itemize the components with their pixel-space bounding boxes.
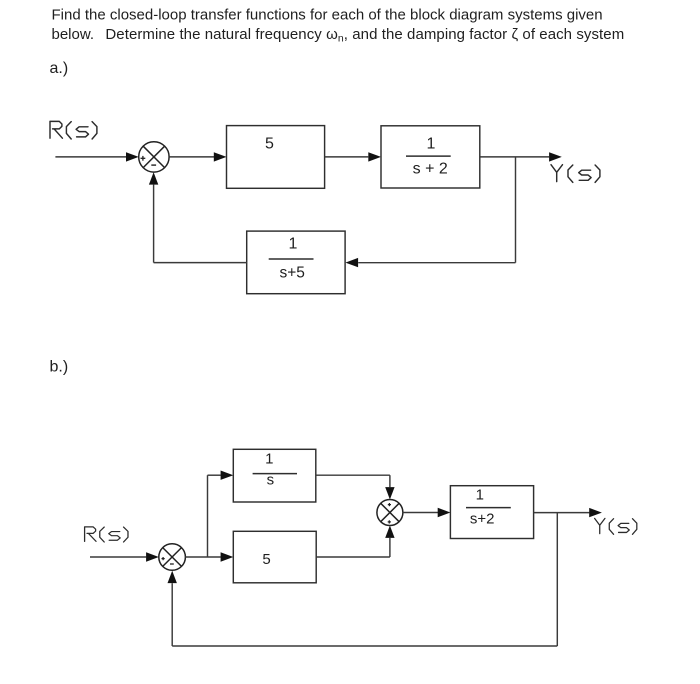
wire: S1 to block G1: [169, 156, 214, 158]
wire: B2 output to corner: [316, 556, 390, 558]
block G1 gain 5: [227, 126, 325, 189]
wire: input R(s) to summer S1: [55, 156, 126, 158]
wire: feedback takeoff vertical (diagram a): [515, 157, 517, 263]
wire: B1 output to corner: [316, 474, 390, 476]
wire: G2 to output Y(s): [480, 156, 549, 158]
svg-text:Determine the natural frequenc: Determine the natural frequency ωn, and …: [105, 26, 624, 45]
svg-text:1: 1: [426, 136, 435, 153]
S2 minus sign: [170, 563, 174, 565]
arrowhead into S2 (from below): [168, 571, 177, 583]
arrowhead into summer S1 (from left): [126, 152, 139, 161]
wire: G1 to block G2: [325, 156, 369, 158]
svg-text:b.): b.): [50, 359, 69, 376]
arrowhead at output Y(s) (diagram b): [589, 508, 602, 517]
arrowhead into block G2: [368, 152, 381, 161]
svg-text:below.: below.: [52, 26, 95, 43]
svg-text:1: 1: [476, 487, 484, 504]
fraction bar (block G2): [406, 155, 451, 157]
block B3 transfer 1/(s+2): [450, 486, 533, 539]
S1 plus sign: [141, 156, 146, 161]
svg-text:s + 2: s + 2: [413, 161, 448, 178]
S1 minus sign: [151, 164, 156, 166]
S3 plus sign (bottom): [388, 520, 391, 523]
wire: short horizontal into 1/s: [208, 474, 221, 476]
node R(s) label (diagram b): [85, 527, 128, 542]
block B2 gain 5: [233, 531, 316, 583]
S2 plus sign: [162, 557, 165, 560]
fraction bar (block B1): [253, 473, 297, 475]
wire: S2 to junction and block 5: [185, 556, 220, 558]
block B1 integrator 1/s: [233, 449, 315, 502]
wire: H1 output to left: [154, 262, 247, 264]
fraction bar (block B3): [466, 507, 511, 509]
svg-text:s+2: s+2: [470, 511, 495, 528]
summing junction S1: [139, 142, 169, 172]
svg-text:1: 1: [265, 451, 273, 468]
wire: corner up to S3 bottom: [389, 538, 391, 557]
arrowhead into block G1: [214, 152, 227, 161]
arrowhead into block H1 (pointing left): [345, 258, 358, 267]
arrowhead into S1 (from below): [149, 172, 158, 184]
wire: input R(s) to summer S2: [90, 556, 146, 558]
block G2 transfer 1/(s+2): [381, 126, 480, 188]
summing junction S3: [377, 500, 403, 526]
svg-text:s+5: s+5: [279, 264, 304, 281]
fraction bar (block H1): [269, 258, 314, 260]
svg-text:Find the closed-loop transfer: Find the closed-loop transfer functions …: [52, 7, 603, 24]
node Y(s) label (diagram b): [595, 518, 637, 534]
arrowhead into block B2 (5): [221, 552, 234, 561]
wire: S3 to block B3: [403, 512, 438, 514]
S3 plus sign (top): [388, 503, 391, 506]
node R(s) label (diagram a): [50, 121, 97, 139]
svg-text:5: 5: [265, 135, 274, 152]
wire: feedback top horizontal into H1: [358, 262, 515, 264]
arrowhead into S3 (from top): [385, 487, 394, 499]
wire: B3 to output Y(s) (diagram b): [534, 512, 590, 514]
arrowhead into block B3: [438, 508, 451, 517]
arrowhead into summer S2 (from left): [146, 552, 159, 561]
svg-text:1: 1: [289, 236, 298, 253]
svg-text:s: s: [267, 472, 275, 489]
arrowhead into S3 (from bottom): [385, 526, 394, 538]
summing junction S2: [159, 544, 186, 571]
node Y(s) label (diagram a): [551, 165, 600, 183]
wire: feedback vertical up to S2: [171, 583, 173, 646]
arrowhead into block B1 (1/s): [221, 471, 234, 480]
wire: feedback vertical up to S1: [153, 185, 155, 263]
svg-text:5: 5: [262, 551, 270, 568]
wire: junction vertical up to 1/s branch: [207, 475, 209, 557]
wire: bottom feedback horizontal: [172, 645, 557, 647]
svg-text:a.): a.): [50, 60, 69, 77]
block H1 feedback 1/(s+5): [247, 231, 345, 294]
arrowhead at output Y(s): [549, 152, 562, 161]
wire: corner down to S3 top: [389, 475, 391, 487]
wire: output takeoff vertical down (diagram b): [556, 513, 558, 646]
